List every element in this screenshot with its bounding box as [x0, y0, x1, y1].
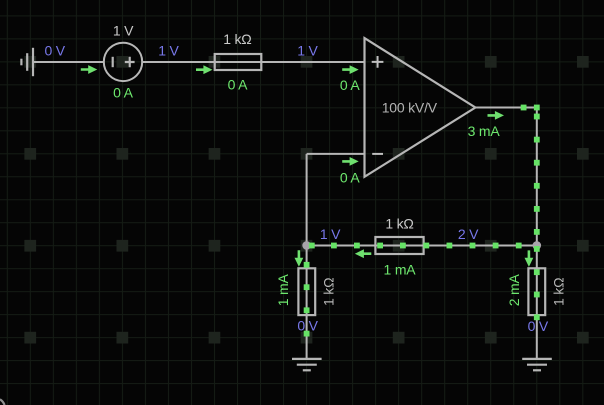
wire node A down to ground G2	[306, 246, 308, 359]
svg-text:1 kΩ: 1 kΩ	[320, 278, 336, 306]
op-amp - pin mark	[372, 153, 383, 155]
op-amp + pin mark	[372, 56, 384, 68]
current arrows	[81, 65, 534, 267]
corner ui arc	[0, 399, 5, 405]
resistor R2 (left vertical)	[298, 268, 315, 315]
wire op-amp output horizontal	[475, 107, 536, 109]
op-amp U1	[365, 38, 476, 177]
svg-text:0 A: 0 A	[228, 77, 249, 93]
wire feedback vertical	[306, 154, 308, 246]
svg-text:2 mA: 2 mA	[506, 274, 522, 307]
svg-text:1 V: 1 V	[297, 42, 318, 58]
wire op-amp - input horizontal	[307, 153, 365, 155]
wire ground to V1	[33, 61, 104, 63]
svg-text:3 mA: 3 mA	[468, 123, 501, 139]
node B junction	[533, 241, 542, 250]
arrow out of op-amp	[488, 111, 505, 120]
wire V1 to R1 and through R1	[142, 61, 261, 63]
arrow into R4 (left)	[355, 249, 372, 258]
svg-text:0 A: 0 A	[113, 85, 134, 101]
arrow into R1	[196, 65, 213, 74]
svg-text:1 mA: 1 mA	[275, 274, 291, 307]
svg-text:0 V: 0 V	[528, 318, 549, 334]
arrow into V1	[81, 65, 98, 74]
svg-text:1 V: 1 V	[158, 42, 179, 58]
voltage source V1	[104, 43, 142, 81]
svg-text:1 kΩ: 1 kΩ	[223, 31, 251, 47]
wire bottom node A to node B	[307, 245, 537, 247]
svg-text:1 kΩ: 1 kΩ	[550, 278, 566, 306]
svg-text:1 mA: 1 mA	[384, 262, 417, 278]
ground G3	[522, 359, 552, 370]
ground G1 left	[21, 48, 33, 76]
arrow into op-amp +	[342, 65, 359, 74]
wire output vertical down	[536, 108, 538, 246]
svg-text:100 kV/V: 100 kV/V	[382, 99, 438, 115]
wire node B down to ground G3	[536, 246, 538, 359]
wire R1 to op-amp + input	[261, 61, 364, 63]
svg-text:1 V: 1 V	[320, 226, 341, 242]
resistor R3 (right vertical)	[528, 268, 545, 315]
svg-text:0 A: 0 A	[340, 169, 361, 185]
resistor R4 (horizontal)	[375, 237, 423, 254]
arrow into R2 (down)	[295, 250, 304, 267]
ground G2	[292, 359, 322, 370]
svg-text:0 V: 0 V	[44, 42, 65, 58]
arrow into op-amp -	[342, 157, 359, 166]
svg-text:1 kΩ: 1 kΩ	[385, 215, 413, 231]
svg-text:2 V: 2 V	[458, 226, 479, 242]
arrow into R3 (down)	[525, 250, 534, 267]
svg-text:0 A: 0 A	[340, 77, 361, 93]
resistor R1	[215, 54, 262, 70]
svg-text:1 V: 1 V	[113, 23, 134, 39]
current flow dots	[304, 105, 540, 337]
node A junction	[302, 241, 311, 250]
